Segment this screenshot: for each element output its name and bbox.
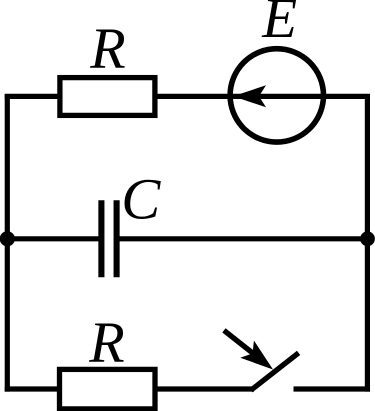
switch S1 blade — [253, 355, 297, 389]
capacitor C1 right plate — [114, 200, 120, 277]
resistor R1 (top) — [60, 78, 155, 116]
switch actuation arrow shaft — [226, 332, 254, 354]
wire right vertical branch — [365, 94, 370, 391]
wire middle segment capacitor to right junction — [117, 236, 370, 241]
svg-text:R: R — [89, 16, 125, 81]
resistor R2 (bottom) — [60, 369, 156, 409]
wire left vertical branch — [5, 94, 10, 391]
wire bottom segment resistor to switch S1 — [155, 386, 254, 391]
svg-text:E: E — [261, 0, 297, 50]
wire top segment resistor to right corner (EMF arrow shaft) — [155, 94, 370, 99]
svg-text:C: C — [121, 167, 161, 232]
switch actuation arrow head — [240, 341, 273, 370]
node B junction dot right — [360, 231, 375, 246]
svg-text:R: R — [88, 310, 124, 375]
wire bottom-left segment to resistor R2 — [5, 386, 60, 391]
capacitor C1 left plate — [98, 200, 104, 277]
node A junction dot left — [0, 231, 15, 246]
EMF arrow head (pointing left) — [233, 85, 266, 107]
wire switch contact to bottom-right corner — [294, 386, 371, 391]
wire top-left segment to resistor R1 — [5, 94, 60, 99]
EMF source U1 circle — [230, 49, 323, 142]
wire middle-left segment to capacitor C1 — [5, 236, 102, 241]
